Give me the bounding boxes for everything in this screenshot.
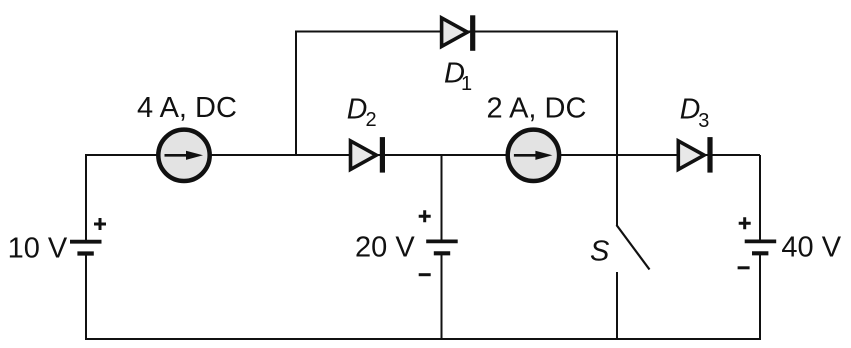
battery 40V plus sign <box>739 217 751 229</box>
diode D3 <box>678 137 710 173</box>
wire: top branch left vertical <box>295 32 297 156</box>
svg-text:20 V: 20 V <box>355 232 415 264</box>
battery 20V minus sign <box>419 273 431 276</box>
wire: left branch upper (node to 10V battery) <box>85 154 87 240</box>
battery 40V minus sign <box>738 266 750 269</box>
wire: top branch horizontal <box>295 31 618 33</box>
battery 40V plates <box>745 241 777 253</box>
label D1 <box>444 58 472 95</box>
svg-text:10 V: 10 V <box>8 233 68 265</box>
battery 20V plus sign <box>419 210 431 222</box>
current source 4A (circle with arrow) <box>158 130 209 181</box>
label D3 <box>680 94 710 132</box>
svg-text:S: S <box>590 235 610 267</box>
current source 2A (circle with arrow) <box>508 130 559 181</box>
svg-text:2: 2 <box>366 109 377 131</box>
svg-text:40 V: 40 V <box>781 232 841 264</box>
diode D2 <box>351 137 383 173</box>
wire: right branch lower (40V battery to bottom rail) <box>759 255 761 340</box>
wire: right-middle vertical (top wire down through node to switch) <box>616 32 618 227</box>
wire: left branch lower (10V battery to bottom rail) <box>85 255 87 340</box>
svg-text:2 A, DC: 2 A, DC <box>487 93 587 125</box>
svg-text:D: D <box>680 94 701 126</box>
battery 20V plates <box>426 241 458 253</box>
diode D1 <box>442 15 473 51</box>
wire: main horizontal node line <box>86 154 760 156</box>
svg-text:1: 1 <box>461 73 472 95</box>
svg-text:D: D <box>347 94 368 126</box>
label D2 <box>347 94 377 131</box>
wire: bottom rail <box>86 338 760 340</box>
wire: switch branch lower (switch to bottom rail) <box>616 272 618 340</box>
svg-text:3: 3 <box>698 110 709 132</box>
battery 10V plates <box>70 242 102 254</box>
wire: middle branch upper (node to 20V battery) <box>441 155 443 240</box>
battery 10V plus sign <box>94 218 106 230</box>
svg-text:4 A, DC: 4 A, DC <box>137 92 237 124</box>
wire: right branch upper (node to 40V battery) <box>759 155 761 240</box>
switch S blade <box>617 225 650 270</box>
wire: middle branch lower (20V battery to bottom rail) <box>441 255 443 340</box>
